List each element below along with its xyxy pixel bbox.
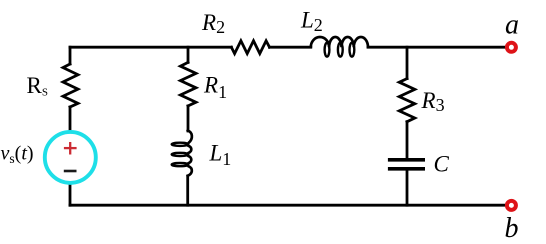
svg-text:C: C <box>434 152 450 177</box>
inductor L1 <box>172 131 192 176</box>
wire L1 to bottom <box>186 176 189 205</box>
wire Rs to source <box>69 107 72 132</box>
svg-text:L1: L1 <box>209 141 232 170</box>
resistor R1 <box>180 62 196 106</box>
svg-text:vs(t): vs(t) <box>1 143 34 167</box>
terminal a <box>507 43 516 52</box>
wire bottom <box>70 204 505 207</box>
resistor Rs <box>63 64 78 107</box>
wire left top segment <box>69 47 72 64</box>
wire top: R2 to L2 <box>270 46 311 49</box>
wire branch1 top segment <box>187 47 190 62</box>
voltage source vs(t) circle <box>45 132 96 183</box>
wire capacitor to bottom <box>406 170 409 205</box>
svg-text:L2: L2 <box>300 8 323 36</box>
wire R1 to L1 <box>187 106 190 131</box>
wire branch2 top segment <box>406 47 409 78</box>
wire source to bottom <box>69 182 72 205</box>
plus sign <box>64 142 77 155</box>
svg-text:R1: R1 <box>203 72 227 102</box>
svg-text:RS: RS <box>27 73 48 98</box>
wire top: left corner to R2 <box>70 46 231 49</box>
svg-text:a: a <box>505 10 519 41</box>
wire top: L2 to terminal a <box>368 46 505 49</box>
svg-text:R2: R2 <box>201 10 225 37</box>
wire R3 to capacitor <box>406 122 409 159</box>
terminal b <box>507 201 516 210</box>
resistor R3 <box>399 79 415 122</box>
svg-text:b: b <box>505 213 519 244</box>
resistor R2 <box>231 41 269 54</box>
minus sign <box>64 170 77 173</box>
capacitor C plates <box>388 160 425 169</box>
svg-text:R3: R3 <box>421 88 445 115</box>
inductor L2 <box>311 37 368 57</box>
